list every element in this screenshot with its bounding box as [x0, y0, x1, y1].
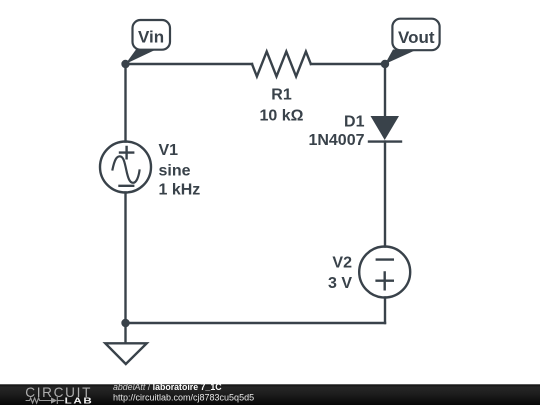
svg-text:1N4007: 1N4007 — [308, 132, 364, 149]
svg-text:Vout: Vout — [398, 28, 435, 47]
svg-text:D1: D1 — [344, 113, 365, 130]
svg-text:R1: R1 — [271, 86, 292, 103]
svg-text:http://circuitlab.com/cj8783cu: http://circuitlab.com/cj8783cu5q5d5 — [113, 392, 254, 402]
svg-text:10 kΩ: 10 kΩ — [260, 107, 304, 124]
svg-text:Vin: Vin — [138, 28, 164, 47]
svg-text:V1: V1 — [159, 142, 179, 159]
svg-text:V2: V2 — [332, 255, 352, 272]
svg-text:3 V: 3 V — [328, 275, 352, 292]
svg-text:abdelAtt / laboratoire 7_1C: abdelAtt / laboratoire 7_1C — [113, 382, 222, 392]
svg-text:1 kHz: 1 kHz — [159, 181, 201, 198]
svg-text:LAB: LAB — [65, 397, 94, 405]
svg-text:sine: sine — [159, 163, 191, 180]
